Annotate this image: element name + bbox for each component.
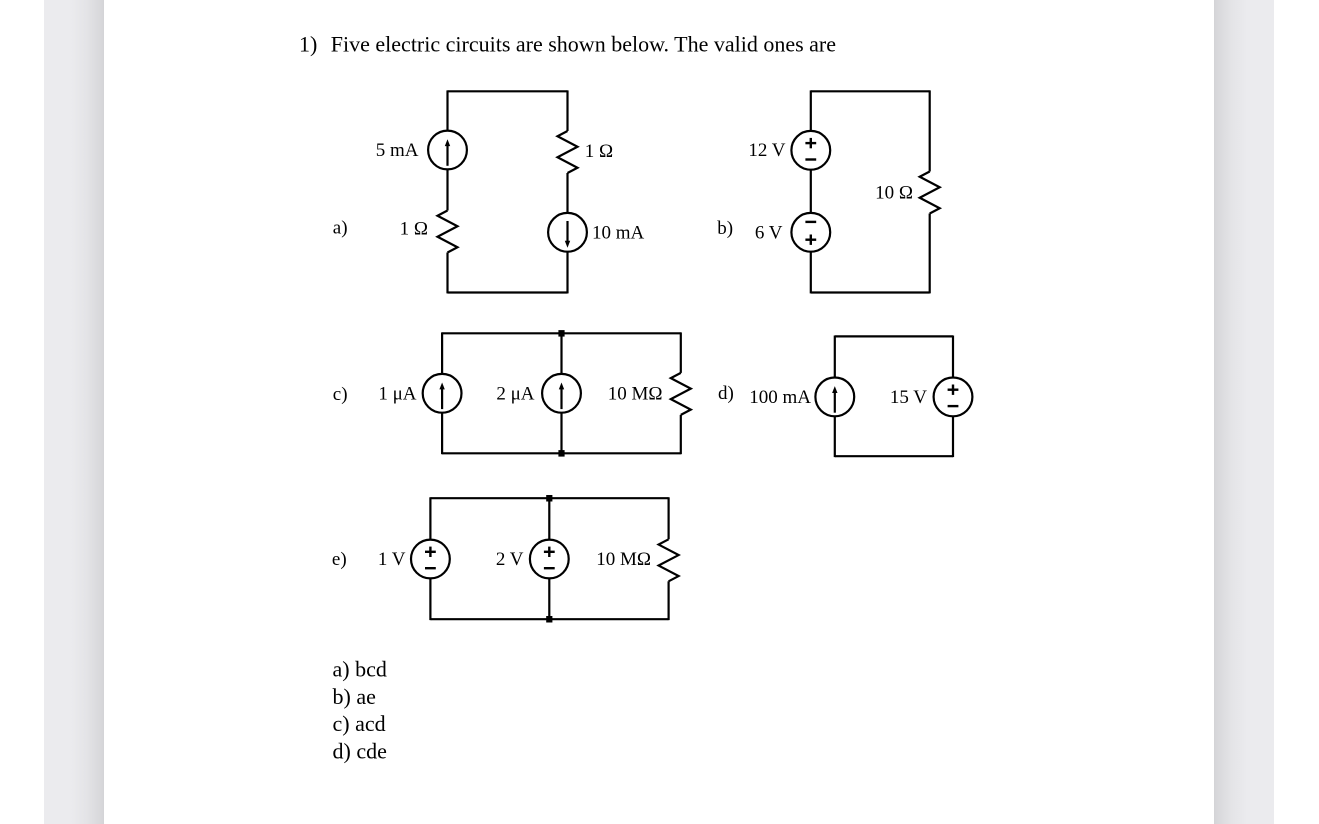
circuit b left wire bottom segment [810, 252, 812, 294]
node junction dot bottom (circuit c) [558, 450, 564, 457]
current source I5 100 mA circle [815, 378, 854, 417]
voltage source V5 2 V circle [530, 540, 569, 579]
circuit b right wire top segment [929, 90, 931, 171]
circuit b right wire bottom segment [929, 214, 931, 294]
voltage source V3 15 V circle [934, 378, 973, 417]
svg-text:d): d) [718, 383, 734, 404]
circuit a left wire top segment [446, 90, 448, 130]
circuit a left wire middle segment [446, 169, 448, 210]
node junction dot bottom (circuit e) [546, 616, 552, 623]
circuit d left wire bottom segment [834, 416, 836, 457]
circuit a top wire [448, 90, 568, 92]
svg-text:10 Ω: 10 Ω [875, 183, 913, 204]
circuit d left wire top segment [834, 336, 836, 378]
svg-text:1): 1) [299, 31, 317, 56]
svg-text:1 V: 1 V [378, 549, 406, 570]
circuit a right wire top segment [566, 90, 568, 131]
current source I3 1 uA circle [423, 374, 462, 413]
circuit a right wire bottom segment [566, 252, 568, 294]
svg-text:2 V: 2 V [496, 549, 524, 570]
svg-text:10 MΩ: 10 MΩ [608, 383, 663, 404]
circuit c left wire bottom segment [441, 413, 443, 455]
svg-text:12 V: 12 V [748, 140, 785, 161]
svg-text:10 mA: 10 mA [592, 223, 645, 244]
current source I1 arrow up [445, 139, 450, 166]
current source I2 10 mA circle [548, 213, 587, 252]
voltage source V1 plus sign [805, 138, 816, 148]
svg-text:d) cde: d) cde [333, 738, 387, 763]
circuit a left wire bottom segment [446, 253, 448, 294]
circuit b middle wire segment [810, 170, 812, 213]
circuit e middle wire bottom segment [548, 578, 550, 619]
svg-text:2 μA: 2 μA [496, 383, 534, 404]
circuit d top wire [835, 335, 953, 337]
circuit b top wire [811, 90, 930, 92]
circuit c top wire [442, 332, 681, 334]
svg-text:a): a) [333, 217, 348, 238]
circuit e right wire top segment [667, 497, 669, 539]
svg-text:a) bcd: a) bcd [333, 657, 387, 682]
svg-text:c) acd: c) acd [333, 711, 386, 736]
svg-text:15 V: 15 V [890, 387, 927, 408]
svg-text:c): c) [333, 384, 348, 405]
voltage source V3 plus sign [948, 385, 959, 395]
circuit c left wire top segment [441, 332, 443, 374]
svg-text:100 mA: 100 mA [749, 387, 811, 408]
circuit c middle wire top segment [560, 333, 562, 374]
question title text [299, 31, 836, 56]
resistor R2 1 ohm (right branch) [558, 131, 578, 173]
current source I3 arrow up [439, 383, 444, 410]
circuit b left wire top segment [810, 90, 812, 130]
current source I1 5 mA circle [428, 131, 467, 170]
node junction dot top (circuit e) [546, 495, 552, 502]
circuit e left wire bottom segment [429, 578, 431, 620]
voltage source V4 minus sign [425, 567, 436, 569]
circuit e top wire [430, 497, 668, 499]
voltage source V4 1 V circle [411, 540, 450, 579]
circuit c right wire bottom segment [680, 415, 682, 454]
circuit d right wire bottom segment [952, 416, 954, 457]
current source I4 2 uA circle [542, 374, 581, 413]
current source I5 arrow up [832, 386, 837, 413]
voltage source V5 minus sign [544, 567, 555, 569]
voltage source V3 minus sign [948, 405, 959, 407]
current source I2 arrow down [565, 221, 570, 248]
current source I4 arrow up [559, 383, 564, 410]
circuit a right wire middle segment [566, 173, 568, 213]
circuit e middle wire top segment [548, 498, 550, 539]
circuit c right wire top segment [680, 332, 682, 373]
circuit c middle wire bottom segment [560, 413, 562, 454]
voltage source V2 minus sign [805, 221, 816, 223]
voltage source V1 12 V circle [791, 131, 830, 170]
svg-text:1 μA: 1 μA [378, 383, 416, 404]
circuit e left wire top segment [429, 497, 431, 539]
circuit d bottom wire [835, 455, 953, 457]
svg-text:Five electric circuits are sho: Five electric circuits are shown below. … [331, 31, 836, 56]
circuit b bottom wire [811, 291, 930, 293]
svg-text:1 Ω: 1 Ω [585, 141, 613, 162]
svg-text:5 mA: 5 mA [376, 140, 419, 161]
circuit e bottom wire [430, 618, 668, 620]
voltage source V2 plus sign [805, 235, 816, 245]
resistor R3 10 ohm [920, 172, 940, 214]
svg-text:b) ae: b) ae [333, 684, 376, 709]
resistor R1 1 ohm (left branch) [438, 211, 458, 253]
resistor R4 10 Mohm [671, 373, 691, 415]
svg-text:6 V: 6 V [755, 223, 783, 244]
svg-text:10 MΩ: 10 MΩ [596, 549, 651, 570]
circuit e right wire bottom segment [667, 581, 669, 620]
node junction dot top (circuit c) [558, 330, 564, 337]
svg-text:b): b) [717, 218, 733, 239]
voltage source V1 minus sign [805, 158, 816, 160]
svg-text:e): e) [332, 549, 347, 570]
circuit d right wire top segment [952, 336, 954, 378]
voltage source V4 plus sign [425, 547, 436, 557]
voltage source V5 plus sign [544, 547, 555, 557]
resistor R5 10 Mohm (circuit e) [659, 539, 679, 581]
circuit c bottom wire [442, 452, 681, 454]
voltage source V2 6 V circle [791, 213, 830, 252]
circuit a bottom wire [448, 291, 568, 293]
answer options text [333, 657, 387, 764]
svg-text:1 Ω: 1 Ω [400, 219, 428, 240]
